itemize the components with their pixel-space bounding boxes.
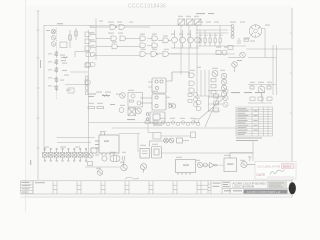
resistor R28 [258, 97, 263, 101]
transistor Q23 [141, 164, 147, 173]
bus label 3 [89, 39, 95, 40]
resistor R35 [214, 94, 219, 98]
resistor R9 [209, 38, 211, 46]
IC U21 [148, 72, 189, 93]
diode pack D4 [43, 148, 48, 161]
wire F links [147, 39, 171, 46]
label net e [40, 60, 41, 68]
wire J links [146, 53, 181, 55]
narrow cell sub rules [53, 184, 211, 190]
diode pack D8 [66, 148, 71, 161]
wire u20 top [230, 153, 253, 158]
resistor R14 [86, 86, 88, 90]
wire vertical x273 [272, 45, 274, 95]
resistor R32 [75, 28, 78, 40]
svg-text:LOGIC DIAGRAM: LOGIC DIAGRAM [233, 185, 255, 189]
title block divider 1 [229, 181, 231, 194]
resistor R22 [97, 107, 104, 109]
wire q14 stub [228, 58, 240, 73]
wire y133 from box T [119, 133, 140, 135]
bus B labels [48, 53, 52, 86]
wire x262 drop Q [261, 95, 263, 103]
wire dashed y165 b [217, 164, 224, 166]
transistor Q12 [222, 50, 227, 55]
flip-flop FF2 [187, 19, 194, 25]
resistor R19 [267, 86, 271, 89]
wire vertical bus left A [37, 11, 39, 180]
resistor R27 [250, 97, 255, 101]
wire y33 top-right [196, 32, 228, 34]
resistor R25 [145, 121, 150, 124]
label VCC [57, 23, 63, 24]
transistor Q18 [193, 97, 197, 101]
stamp box [255, 162, 296, 180]
resistor R29 [267, 97, 272, 101]
transistor Q25 [51, 42, 56, 47]
resistor R26 [153, 121, 158, 124]
gate U10c [189, 88, 194, 92]
wire vertical x253 stamp feed [252, 140, 254, 161]
IC U20 [224, 158, 237, 172]
sheet edge [25, 0, 27, 212]
logo oval [289, 182, 296, 194]
labels top-left [30, 23, 67, 165]
svg-text:ACCUMULATOR: ACCUMULATOR [257, 165, 280, 169]
flip-flop FF3 [195, 19, 202, 25]
wire y57 right [248, 57, 276, 59]
varistor RV1 [164, 138, 169, 143]
wire y54 right of gates [170, 53, 235, 55]
transistor Q22 [121, 164, 127, 170]
resistor R36 [214, 101, 219, 105]
resistor R31 zigzag [63, 56, 68, 58]
wire ladder rungs [208, 91, 223, 113]
wire y30 top-right [196, 29, 228, 31]
strip top rule [21, 180, 293, 182]
capacitor C2 [68, 88, 74, 93]
wire y128 from box T [112, 127, 236, 129]
resistor R30 zigzag [102, 94, 109, 97]
gate U8c [163, 52, 168, 57]
gate U4c [112, 44, 117, 49]
wire y46 top-right [196, 45, 246, 47]
bus A ticks [37, 11, 40, 148]
transistor Q21 [97, 170, 103, 176]
gate U4b [120, 36, 125, 41]
capacitor C9 [123, 156, 125, 166]
transistor Q7 [212, 71, 218, 77]
transistor Q13 [240, 52, 246, 58]
wire y84 right cluster [248, 84, 276, 86]
diode pack D6 [54, 148, 59, 161]
resistor R10 [214, 38, 216, 46]
bus tick 4 [90, 47, 96, 49]
IC U12 [146, 112, 165, 123]
capacitor C1 [60, 42, 67, 48]
title block mid rule [222, 188, 292, 190]
issue text [224, 190, 242, 191]
transistor Q19 [193, 102, 197, 106]
IC U16 [140, 149, 150, 159]
label n1 [88, 94, 96, 98]
gate U14a [197, 101, 202, 105]
sheet number cells text [213, 183, 221, 187]
strip bottom rule [21, 193, 293, 195]
gate U3b [119, 25, 124, 30]
gate U8a [140, 52, 145, 57]
transistor Q4 [180, 30, 186, 48]
IC U15 label [104, 141, 109, 142]
label n2 [110, 104, 135, 120]
notes text [22, 181, 30, 184]
revision label [35, 182, 45, 183]
handwriting above strip [125, 177, 139, 179]
resistor R33 [86, 81, 88, 85]
gate U2b [85, 80, 90, 85]
strip cell dividers [33, 181, 222, 194]
diode pack D10 [78, 148, 83, 161]
notes box [21, 181, 34, 194]
gate U10b [189, 81, 194, 85]
wire flipflop drop 3 [196, 25, 198, 70]
gate U9b [91, 53, 96, 57]
drawing number text [223, 181, 229, 184]
varistor RV2 [169, 138, 174, 143]
gate U2a [85, 63, 90, 68]
IC U11 [140, 94, 166, 110]
gate U5a [140, 36, 145, 41]
wire diagonal L to chain [199, 97, 225, 119]
flip-flop FF1 [178, 19, 185, 25]
transistor Q16 [136, 108, 142, 114]
label net b [61, 56, 67, 59]
approval stamp marks [269, 183, 284, 188]
transistor Q5 [188, 30, 194, 48]
stamp date line [267, 176, 294, 178]
wire vertical x96 [95, 18, 97, 60]
wire under transistors [171, 47, 199, 49]
wire vertical x265 [264, 29, 266, 58]
resistor R4 [55, 67, 58, 73]
gate U1b [85, 39, 90, 44]
resistor R18 [250, 86, 254, 89]
svg-text:98023: 98023 [283, 165, 291, 169]
wire y122 long chain [89, 122, 201, 124]
IC U18 label [183, 165, 189, 166]
wire y142 under box [57, 142, 91, 144]
bus tick 3 [90, 41, 96, 43]
stamp number box [282, 164, 295, 169]
wire flipflop drop 2 [188, 25, 190, 78]
capacitor C4 [228, 46, 233, 50]
transistor Q9 [221, 79, 226, 84]
wire flipflop drop 1 [180, 25, 182, 75]
wire y95 cluster L [197, 95, 222, 97]
transistor Q14 [232, 62, 238, 68]
resistor R6 [55, 85, 58, 91]
resistor R16 [211, 85, 216, 88]
socket circle J2 [249, 25, 261, 37]
transistor Q15 [258, 86, 265, 93]
transistor Q6 [195, 37, 201, 43]
wire y49 right [246, 48, 292, 50]
capacitor C6 [128, 108, 136, 116]
resistor R11 [219, 38, 221, 46]
stamp signature [270, 170, 285, 175]
table caption line 1 [236, 138, 262, 139]
gate U7 [163, 38, 168, 43]
svg-text:ACORN COMPUTERS Ltd: ACORN COMPUTERS Ltd [247, 190, 281, 194]
wire y72 [70, 71, 88, 73]
gate U3a [110, 25, 117, 30]
wire cluster verticals L [197, 70, 209, 96]
IC U17 [152, 147, 162, 159]
capacitor C7 [91, 148, 97, 153]
bus tick 2 [90, 34, 96, 36]
gate U6b [152, 43, 157, 48]
wire y103 right Q [248, 102, 272, 104]
resistor R15 [211, 79, 216, 82]
gate U8b [151, 52, 158, 57]
label o1 [153, 125, 162, 126]
gate U9c [86, 63, 91, 67]
transistor Q26 [223, 89, 228, 94]
transistor Q8 [221, 73, 226, 78]
gate U9d [91, 63, 96, 67]
resistor R1 [69, 30, 72, 48]
label net f [30, 160, 31, 165]
company band [244, 190, 288, 194]
wire vertical x276 [276, 45, 278, 95]
diode D2 [119, 108, 124, 113]
diode pack D5 [48, 148, 53, 161]
gate U6a [152, 36, 157, 41]
gate U13 [169, 104, 176, 108]
transistor Q1 [51, 29, 56, 34]
wire y136 [161, 135, 191, 137]
label q13 [237, 60, 242, 61]
label top right [196, 13, 214, 14]
diode D1 [120, 93, 126, 99]
approval stamp box [267, 181, 287, 189]
gate U9a [86, 53, 91, 57]
table frame [236, 107, 273, 136]
transistor Q27 [223, 95, 228, 100]
bus label 4 [89, 45, 95, 46]
bus label 2 [89, 32, 95, 33]
drawing area tint [25, 6, 293, 198]
wire bus drops top-right [200, 26, 220, 39]
table caption line 2 [236, 140, 258, 141]
resistor R23 [188, 94, 192, 97]
resistor R2 [55, 51, 58, 57]
wire mid horizontal y57 [93, 55, 140, 57]
wire bus B stubs [53, 55, 57, 87]
table cell text [238, 107, 247, 110]
wire M stubs [252, 85, 269, 97]
resistor R37 [214, 108, 219, 112]
bus tick 1 [90, 27, 96, 29]
wire top horizontal run [44, 25, 96, 27]
IC U18 [176, 160, 196, 176]
transistor Q20 [88, 153, 93, 158]
diode D12 [197, 162, 202, 167]
fold mark ticks [290, 33, 293, 113]
wire y137 to big box [57, 137, 96, 139]
wire x148 drop [148, 123, 153, 133]
component value labels (tiny scan text) [44, 16, 272, 169]
resistor R13 [86, 76, 88, 80]
IC U15 main [95, 133, 119, 156]
node box corner [75, 52, 90, 58]
capacitor C10 [177, 138, 183, 143]
wire vertical x88 [88, 30, 90, 152]
resistor R12 [244, 39, 249, 41]
transistor Q24 [241, 161, 247, 167]
wire to stamp [247, 164, 255, 166]
transistor Q2 [51, 35, 56, 40]
diode D13 [204, 163, 208, 167]
diode pack D7 [60, 148, 65, 161]
label net a [46, 29, 50, 32]
gate U19 [210, 163, 217, 168]
oscillator X1 [102, 156, 107, 161]
capacitor C5 [216, 51, 221, 55]
bus label 1 [89, 25, 95, 26]
transistor Q17 [193, 92, 197, 96]
label net c [61, 59, 66, 62]
capacitor C8 [88, 162, 93, 166]
transistor Q28 [223, 102, 228, 107]
transistor Q11 [221, 91, 226, 96]
wire dashed y165 a [203, 164, 209, 166]
resistor network RN1 [161, 121, 199, 126]
crystal X2 [110, 156, 120, 162]
label q2 [244, 92, 252, 93]
IC U20 label [227, 164, 234, 165]
wire dotted bus [56, 28, 58, 100]
transistor Q3 [172, 30, 178, 48]
gate U14b [197, 107, 202, 111]
connector pins J1 [231, 25, 234, 39]
wire y28 circle to box [262, 28, 265, 30]
handwritten mark left of stamp [248, 156, 252, 161]
resistor R21 [88, 107, 95, 109]
resistor R3 [55, 59, 58, 65]
wire rv feed [150, 141, 190, 147]
diode pack D9 [72, 148, 77, 161]
diode D3 [195, 119, 199, 123]
resistor R20 [102, 95, 110, 97]
resistor R7 [199, 38, 201, 46]
resistor R8 [204, 38, 206, 46]
capacitor C3 [238, 38, 240, 44]
svg-text:DATE: DATE [257, 173, 267, 177]
diode pack D11 [84, 148, 89, 161]
label net d [62, 69, 67, 72]
wire y167 bottom left [85, 166, 120, 168]
wire y84 [65, 84, 88, 86]
capacitor C12 [191, 132, 196, 138]
gate U5b [140, 43, 145, 48]
gate U10a [189, 73, 194, 77]
gate U1a [85, 32, 90, 37]
wire vertical x138 [137, 134, 139, 153]
resistor R5 [55, 77, 58, 83]
wire y153 long bottom run [161, 152, 253, 154]
frame right border [291, 8, 293, 197]
svg-text:CCCC1318436: CCCC1318436 [128, 4, 166, 10]
strip bottom outer rule [21, 196, 293, 198]
resistor R24 [188, 100, 192, 103]
label q1 [231, 92, 240, 93]
wire vertical bus left B [43, 25, 45, 151]
capacitor C11 [153, 133, 161, 140]
resistor R34 [86, 91, 88, 94]
gate U4a [111, 36, 116, 41]
relay K1 [128, 93, 143, 108]
wire gate E out [96, 27, 150, 47]
wire diagonal L2 [205, 97, 218, 127]
transistor Q10 [221, 85, 226, 90]
wire top long run to right [96, 25, 232, 27]
table rows [236, 109, 273, 133]
label q3 [255, 92, 265, 93]
table columns [252, 107, 268, 136]
resistor R17 [211, 91, 216, 94]
gate U1c [85, 46, 90, 51]
